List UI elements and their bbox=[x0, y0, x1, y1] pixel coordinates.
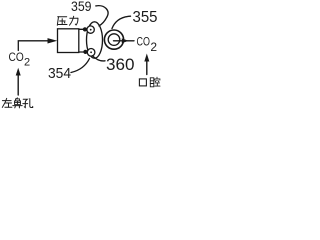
label 腔 (oral char 2) bbox=[150, 77, 160, 87]
arrowhead oral cavity bbox=[144, 54, 149, 62]
leader line 354 bbox=[71, 59, 90, 73]
svg-text:359: 359 bbox=[71, 0, 92, 14]
label 左 (left-nostril char 1) bbox=[2, 98, 12, 107]
leader line 359 bbox=[96, 6, 108, 26]
arrow up from oral cavity bbox=[146, 59, 148, 75]
svg-text:354: 354 bbox=[48, 65, 71, 82]
svg-text:355: 355 bbox=[133, 9, 158, 26]
arrowhead into pressure box bbox=[48, 38, 58, 43]
label 鼻 (left-nostril char 2) bbox=[13, 98, 22, 108]
svg-text:2: 2 bbox=[24, 56, 30, 68]
CO2 sensor inner circle bbox=[108, 34, 120, 46]
label 口 (oral char 1) bbox=[139, 79, 146, 86]
junction dot bottom bbox=[83, 50, 87, 54]
arrowhead left nostril bbox=[16, 68, 21, 76]
junction dot top bbox=[83, 27, 87, 31]
arrowhead toward right CO2 bbox=[122, 38, 129, 43]
wire from left CO2 up and right into pressure box bbox=[18, 41, 50, 51]
wire box top-right to junction bbox=[79, 28, 85, 30]
arrow up from left nostril bbox=[17, 73, 19, 95]
port circle 354 (bottom) bbox=[87, 49, 95, 57]
svg-text:360: 360 bbox=[106, 55, 135, 74]
svg-text:CO: CO bbox=[9, 50, 24, 64]
cannula loop ellipse bbox=[87, 22, 103, 58]
label 孔 (left-nostril char 3) bbox=[23, 99, 33, 108]
svg-text:2: 2 bbox=[150, 40, 157, 54]
wire box bottom-right to junction bbox=[79, 51, 85, 53]
CO2 sensor outer circle 355 bbox=[104, 30, 123, 49]
label 力 (pressure char 2) bbox=[70, 16, 78, 25]
leader line 360 bbox=[93, 56, 106, 61]
label 压 (pressure char 1) bbox=[57, 17, 67, 26]
pressure box bbox=[58, 29, 79, 53]
port center dot bottom bbox=[90, 51, 92, 53]
svg-text:CO: CO bbox=[137, 34, 150, 48]
port center dot top bbox=[90, 29, 92, 31]
wire from sensor to right CO2 bbox=[114, 40, 135, 42]
port circle 359 (top) bbox=[87, 26, 94, 33]
leader line 355 bbox=[112, 16, 131, 28]
